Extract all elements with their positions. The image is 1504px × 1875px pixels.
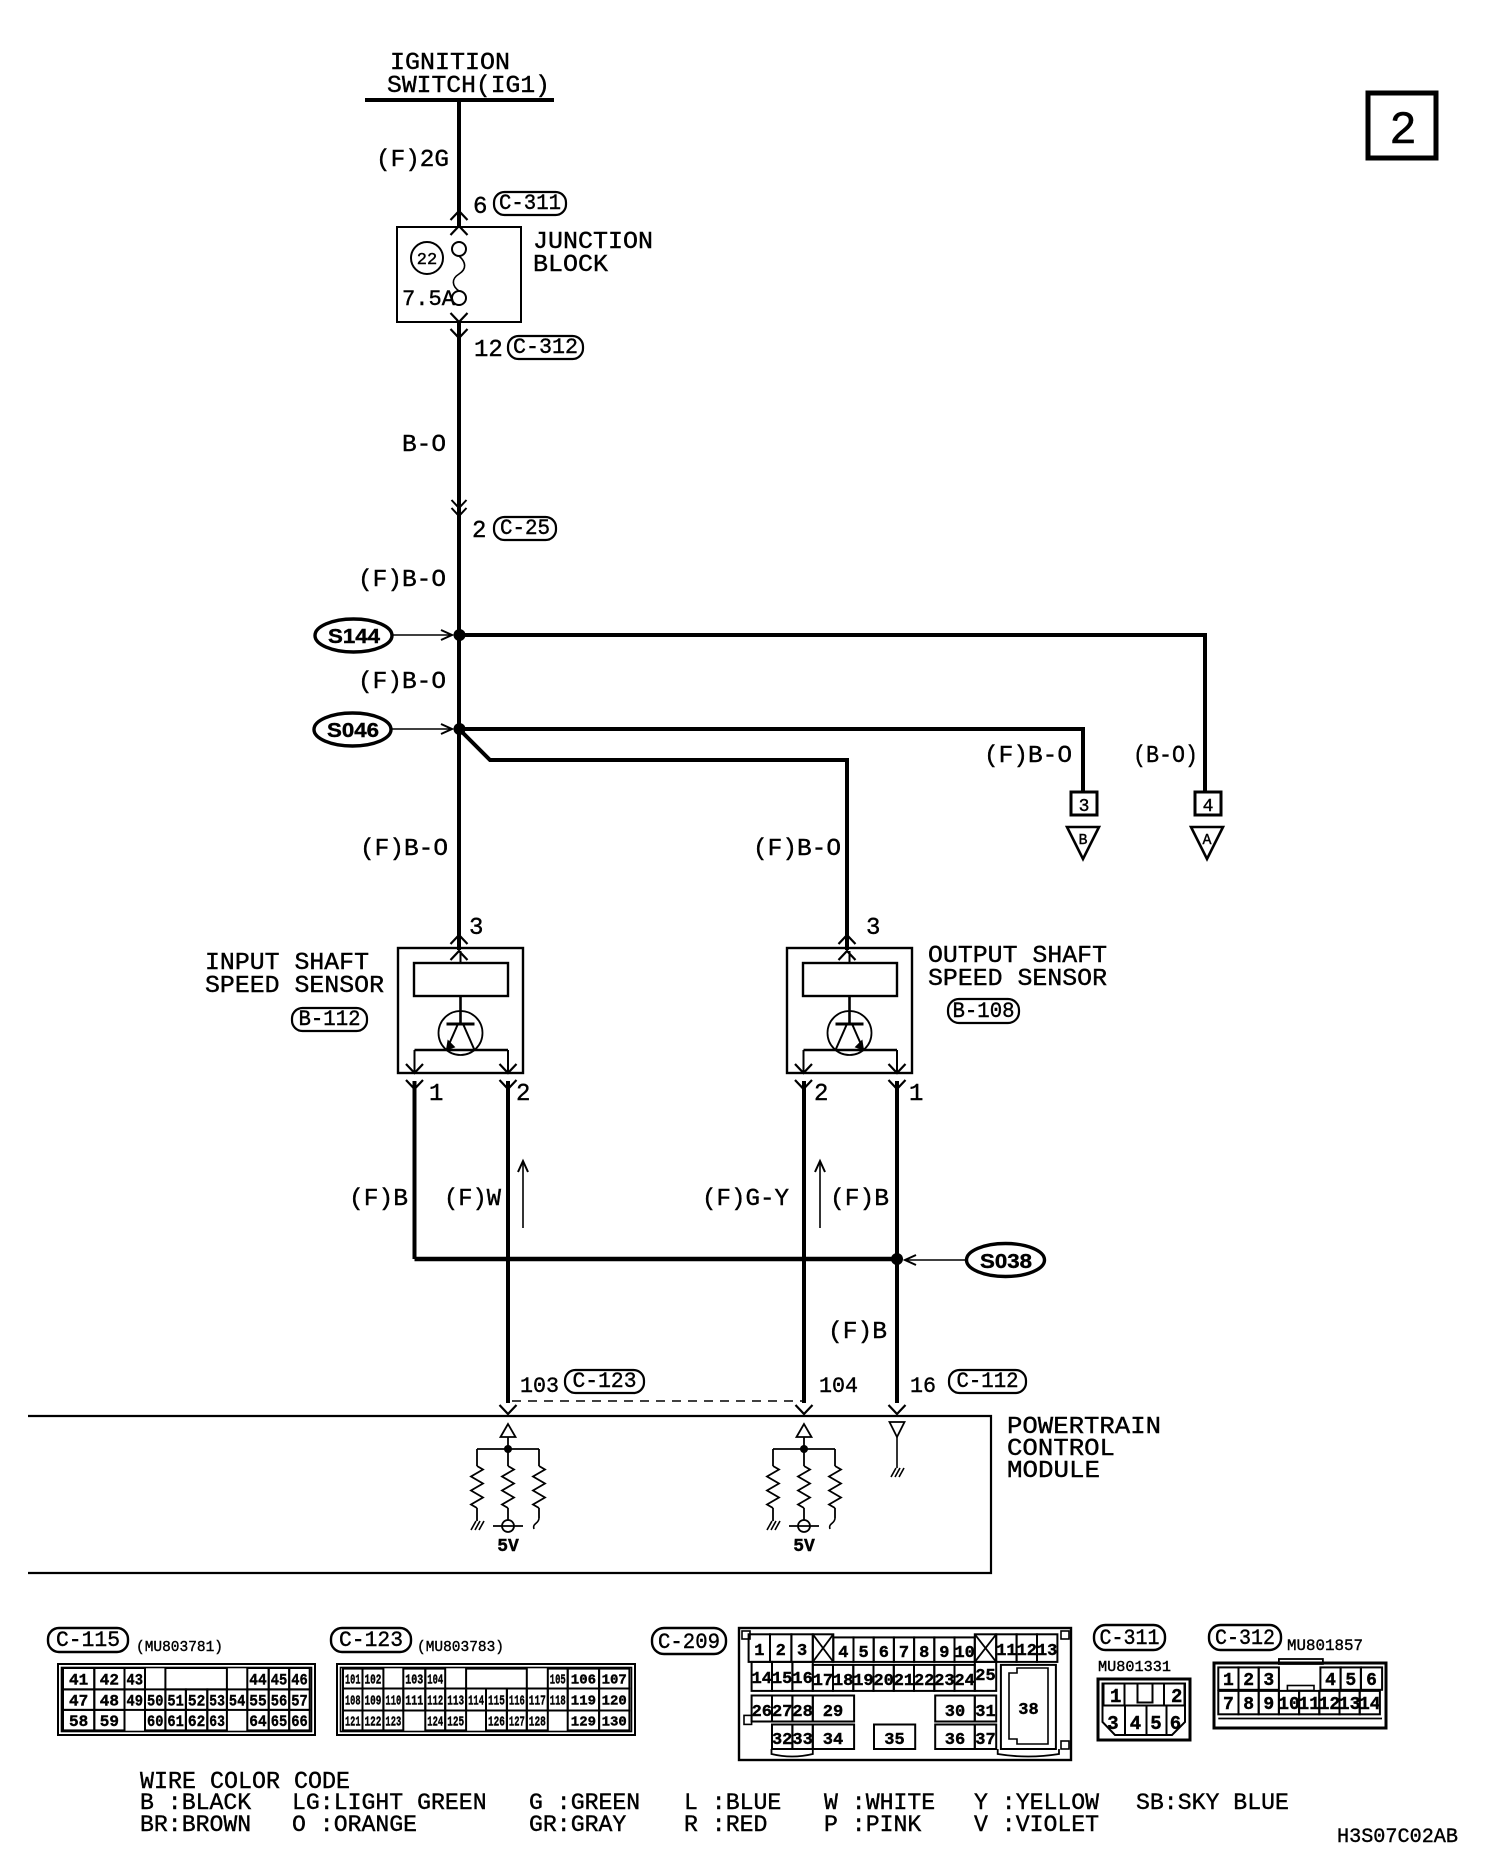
svg-text:(F)B-O: (F)B-O xyxy=(360,836,448,863)
connector C-311 pin 6 crossing xyxy=(451,191,567,221)
splice S046 oval xyxy=(314,713,391,746)
fuse number circle 22 xyxy=(411,242,443,274)
svg-text:R :RED: R :RED xyxy=(684,1812,767,1838)
svg-text:13: 13 xyxy=(1037,1642,1057,1661)
svg-text:20: 20 xyxy=(873,1672,893,1691)
svg-text:(F)B-O: (F)B-O xyxy=(358,669,446,696)
svg-text:13: 13 xyxy=(1339,1695,1361,1715)
twist arrow output xyxy=(815,1161,825,1228)
svg-text:23: 23 xyxy=(934,1672,954,1691)
svg-text:12: 12 xyxy=(1319,1695,1341,1715)
svg-text:46: 46 xyxy=(291,1671,308,1689)
junction block exit arrow xyxy=(451,313,468,322)
svg-text:GR:GRAY: GR:GRAY xyxy=(529,1812,626,1838)
svg-text:26: 26 xyxy=(752,1703,772,1722)
svg-text:(F)B-O: (F)B-O xyxy=(984,743,1072,770)
wire color code table xyxy=(140,1790,1289,1838)
svg-text:S144: S144 xyxy=(328,626,381,648)
svg-text:115: 115 xyxy=(488,1694,505,1710)
part number MU801331 xyxy=(1098,1659,1171,1676)
input sensor label xyxy=(205,950,384,1000)
svg-text:31: 31 xyxy=(975,1703,995,1722)
svg-text:29: 29 xyxy=(823,1703,843,1722)
page number box 2 xyxy=(1368,93,1436,158)
junction block entry arrow xyxy=(451,226,468,235)
svg-text:114: 114 xyxy=(468,1694,484,1710)
svg-text:S046: S046 xyxy=(327,720,379,742)
svg-text:5V: 5V xyxy=(497,1537,519,1557)
PCM input-sensor pull-up network xyxy=(471,1424,545,1557)
svg-text:28: 28 xyxy=(792,1703,812,1722)
label (F)B-O above S046 xyxy=(358,669,446,696)
svg-text:57: 57 xyxy=(291,1692,308,1710)
connector label C-123 xyxy=(331,1628,411,1653)
label (F)G-Y output pin2 xyxy=(702,1186,789,1213)
svg-text:61: 61 xyxy=(167,1713,184,1731)
svg-text:14: 14 xyxy=(752,1670,772,1689)
svg-text:2: 2 xyxy=(1243,1671,1254,1691)
svg-text:35: 35 xyxy=(884,1731,904,1750)
svg-text:6: 6 xyxy=(879,1644,889,1663)
svg-text:105: 105 xyxy=(550,1673,566,1689)
svg-text:SPEED SENSOR: SPEED SENSOR xyxy=(205,973,384,1000)
svg-text:110: 110 xyxy=(385,1694,401,1710)
ignition switch bus bar xyxy=(365,98,554,102)
svg-text:112: 112 xyxy=(427,1694,443,1710)
connector C-115 pin view xyxy=(58,1664,315,1735)
svg-text:126: 126 xyxy=(488,1714,505,1730)
svg-text:25: 25 xyxy=(975,1667,995,1686)
svg-text:116: 116 xyxy=(509,1694,525,1710)
svg-text:14: 14 xyxy=(1359,1695,1381,1715)
svg-text:18: 18 xyxy=(833,1672,853,1691)
input sensor pin 2 label xyxy=(516,1081,530,1108)
wire (F)B input pin1 down to S038 run xyxy=(413,1081,417,1259)
svg-text:B-112: B-112 xyxy=(299,1007,361,1032)
svg-text:51: 51 xyxy=(167,1692,184,1710)
label (F)B to pin16 xyxy=(828,1319,887,1346)
svg-text:60: 60 xyxy=(147,1713,163,1731)
svg-text:8: 8 xyxy=(1243,1695,1254,1715)
svg-text:2: 2 xyxy=(1389,105,1417,157)
svg-text:27: 27 xyxy=(772,1703,792,1722)
wire S144 to sheet connector 4 xyxy=(460,635,1206,791)
svg-text:H3S07C02AB: H3S07C02AB xyxy=(1337,1826,1458,1849)
svg-text:B: B xyxy=(1078,832,1087,849)
PCM pin 16 label xyxy=(910,1374,936,1399)
svg-text:104: 104 xyxy=(427,1673,443,1689)
label (F)B-O above input sensor xyxy=(360,836,448,863)
svg-text:30: 30 xyxy=(945,1703,965,1722)
svg-text:SWITCH(IG1): SWITCH(IG1) xyxy=(387,73,550,100)
label B-O xyxy=(402,432,446,459)
connector label C-123 (wire) xyxy=(565,1369,644,1394)
connector label B-108 xyxy=(948,999,1019,1024)
output sensor pin 2 label xyxy=(814,1081,828,1108)
output sensor label xyxy=(928,943,1107,993)
svg-text:101: 101 xyxy=(345,1673,361,1689)
sheet arrow A xyxy=(1191,827,1223,859)
svg-text:58: 58 xyxy=(69,1713,88,1731)
svg-text:33: 33 xyxy=(792,1731,812,1750)
PCM crossing arrow pin104 xyxy=(796,1405,813,1414)
svg-text:3: 3 xyxy=(1263,1671,1274,1691)
part number MU801857 xyxy=(1287,1637,1363,1655)
PCM crossing arrow pin16 xyxy=(889,1405,906,1414)
svg-text:36: 36 xyxy=(945,1731,965,1750)
svg-text:6: 6 xyxy=(473,194,487,221)
svg-text:4: 4 xyxy=(838,1644,848,1663)
PCM pin16 ground xyxy=(890,1422,905,1477)
svg-text:4: 4 xyxy=(1325,1671,1336,1691)
label (F)B-O above S144 xyxy=(358,567,446,594)
wire (F)B output pin1 to PCM pin16 xyxy=(895,1081,899,1403)
connector label C-112 (wire) xyxy=(949,1369,1026,1394)
svg-text:45: 45 xyxy=(271,1671,288,1689)
wire B-O junction block to S046 xyxy=(457,322,461,950)
svg-text:9: 9 xyxy=(1263,1695,1274,1715)
label (F)2G xyxy=(376,147,449,174)
svg-text:(F)B-O: (F)B-O xyxy=(753,836,841,863)
svg-text:22: 22 xyxy=(914,1672,934,1691)
input sensor pin 1 label xyxy=(429,1081,443,1108)
svg-text:BLOCK: BLOCK xyxy=(533,252,609,279)
svg-text:MODULE: MODULE xyxy=(1007,1458,1100,1485)
svg-text:66: 66 xyxy=(291,1713,308,1731)
svg-text:11: 11 xyxy=(1298,1695,1320,1715)
label (F)W input pin2 xyxy=(444,1186,502,1213)
svg-text:117: 117 xyxy=(529,1694,546,1710)
sheet connector box 3 xyxy=(1071,792,1097,817)
svg-text:104: 104 xyxy=(819,1374,858,1399)
part number MU803783 xyxy=(417,1639,504,1656)
svg-text:111: 111 xyxy=(405,1694,423,1710)
svg-text:(F)2G: (F)2G xyxy=(376,147,449,174)
svg-text:4: 4 xyxy=(1203,797,1214,817)
svg-text:53: 53 xyxy=(209,1692,225,1710)
svg-text:2: 2 xyxy=(814,1081,828,1108)
svg-text:C-25: C-25 xyxy=(500,516,550,541)
svg-text:50: 50 xyxy=(147,1692,163,1710)
connector label B-112 xyxy=(292,1007,367,1032)
svg-text:103: 103 xyxy=(520,1374,559,1399)
node S038 junction dot xyxy=(891,1253,903,1265)
splice S144 oval xyxy=(315,619,392,652)
svg-text:C-312: C-312 xyxy=(1215,1626,1275,1651)
wire S046 to sheet connector 3 xyxy=(460,729,1084,791)
svg-text:(F)B-O: (F)B-O xyxy=(358,567,446,594)
node S046 junction dot xyxy=(454,723,466,735)
svg-text:22: 22 xyxy=(417,251,437,270)
svg-text:119: 119 xyxy=(571,1694,596,1710)
connector C-311 pin view xyxy=(1098,1679,1190,1740)
svg-text:42: 42 xyxy=(100,1671,119,1689)
fuse 7.5A symbol xyxy=(452,242,466,305)
wire (F)W input pin2 to PCM pin103 xyxy=(506,1081,510,1403)
label (F)B output pin1 xyxy=(830,1186,889,1213)
svg-text:48: 48 xyxy=(100,1692,119,1710)
drawing number H3S07C02AB xyxy=(1337,1826,1458,1849)
connector C-123 pin view xyxy=(337,1664,635,1735)
svg-text:7: 7 xyxy=(1223,1695,1234,1715)
svg-text:3: 3 xyxy=(1107,1713,1118,1735)
connector label C-209 xyxy=(652,1628,726,1655)
svg-text:108: 108 xyxy=(345,1694,361,1710)
svg-text:6: 6 xyxy=(1366,1671,1377,1691)
junction block box xyxy=(397,227,521,322)
svg-text:44: 44 xyxy=(249,1671,267,1689)
svg-text:(F)B: (F)B xyxy=(830,1186,889,1213)
connector C-312 pin view xyxy=(1214,1659,1386,1728)
svg-text:37: 37 xyxy=(975,1731,995,1750)
svg-text:3: 3 xyxy=(866,915,880,942)
svg-text:38: 38 xyxy=(1018,1701,1038,1720)
connector C-312 pin 12 crossing xyxy=(451,329,584,364)
ignition switch (IG1) label xyxy=(387,50,550,100)
svg-text:C-123: C-123 xyxy=(573,1369,637,1394)
svg-text:118: 118 xyxy=(550,1694,566,1710)
dashed harness boundary xyxy=(512,1400,805,1402)
twist arrow input xyxy=(518,1161,528,1228)
PCM crossing arrow pin103 xyxy=(500,1405,517,1414)
svg-text:128: 128 xyxy=(529,1714,546,1730)
svg-text:34: 34 xyxy=(823,1731,843,1750)
svg-text:1: 1 xyxy=(429,1081,443,1108)
connector C-25 pin 2 crossing xyxy=(452,500,557,545)
svg-text:17: 17 xyxy=(813,1672,833,1691)
svg-text:6: 6 xyxy=(1170,1713,1181,1735)
connector label C-312 (view) xyxy=(1209,1625,1281,1651)
junction block label xyxy=(533,229,653,279)
svg-text:C-209: C-209 xyxy=(658,1630,720,1655)
svg-text:122: 122 xyxy=(365,1714,382,1730)
svg-text:49: 49 xyxy=(127,1692,144,1710)
svg-text:109: 109 xyxy=(365,1694,382,1710)
svg-text:12: 12 xyxy=(1017,1642,1037,1661)
output sensor pin 3 label xyxy=(866,915,880,942)
svg-text:65: 65 xyxy=(271,1713,288,1731)
svg-text:5: 5 xyxy=(1150,1713,1161,1735)
svg-text:19: 19 xyxy=(853,1672,873,1691)
powertrain control module box xyxy=(28,1416,991,1573)
svg-text:47: 47 xyxy=(69,1692,88,1710)
svg-text:2: 2 xyxy=(472,518,486,545)
svg-text:SPEED SENSOR: SPEED SENSOR xyxy=(928,966,1107,993)
svg-text:103: 103 xyxy=(405,1673,423,1689)
node S144 junction dot xyxy=(454,629,466,641)
svg-text:64: 64 xyxy=(249,1713,267,1731)
label (F)B-O at connector 3 xyxy=(984,743,1072,770)
output shaft speed sensor B-108 (component) xyxy=(787,948,912,1089)
svg-text:63: 63 xyxy=(209,1713,225,1731)
svg-text:113: 113 xyxy=(447,1694,464,1710)
sheet connector box 4 xyxy=(1195,792,1221,817)
svg-text:121: 121 xyxy=(345,1714,361,1730)
svg-text:3: 3 xyxy=(469,915,483,942)
svg-text:12: 12 xyxy=(474,337,503,364)
svg-text:43: 43 xyxy=(127,1671,144,1689)
svg-text:123: 123 xyxy=(385,1714,401,1730)
sheet arrow B xyxy=(1067,827,1099,859)
svg-text:C-123: C-123 xyxy=(339,1628,403,1653)
svg-text:52: 52 xyxy=(188,1692,205,1710)
svg-text:16: 16 xyxy=(910,1374,936,1399)
part number MU803781 xyxy=(136,1639,223,1656)
svg-text:56: 56 xyxy=(271,1692,288,1710)
svg-text:2: 2 xyxy=(516,1081,530,1108)
svg-text:(F)W: (F)W xyxy=(444,1186,502,1213)
svg-text:(MU803781): (MU803781) xyxy=(136,1639,223,1656)
output sensor pin 1 label xyxy=(909,1081,923,1108)
svg-text:124: 124 xyxy=(427,1714,443,1730)
svg-text:5: 5 xyxy=(858,1644,868,1663)
svg-text:BR:BROWN: BR:BROWN xyxy=(140,1812,251,1838)
svg-text:11: 11 xyxy=(996,1642,1016,1661)
svg-text:120: 120 xyxy=(602,1694,627,1710)
PCM output-sensor pull-up network xyxy=(767,1424,841,1557)
svg-text:10: 10 xyxy=(954,1644,974,1663)
svg-text:C-112: C-112 xyxy=(957,1369,1019,1394)
label (B-O) at connector 4 xyxy=(1133,743,1198,770)
PCM pin 104 label xyxy=(819,1374,858,1399)
svg-text:MU801331: MU801331 xyxy=(1098,1659,1171,1676)
svg-text:P :PINK: P :PINK xyxy=(824,1812,921,1838)
svg-text:V :VIOLET: V :VIOLET xyxy=(974,1812,1099,1838)
svg-text:(MU803783): (MU803783) xyxy=(417,1639,504,1656)
svg-text:3: 3 xyxy=(797,1642,807,1661)
svg-text:5V: 5V xyxy=(793,1537,815,1557)
label 7.5A xyxy=(402,287,456,312)
svg-text:O :ORANGE: O :ORANGE xyxy=(292,1812,417,1838)
arrow S046 to junction xyxy=(392,724,452,734)
svg-text:B-O: B-O xyxy=(402,432,446,459)
wire (F)2G ignition to junction block xyxy=(457,100,461,227)
svg-text:C-312: C-312 xyxy=(513,335,578,360)
output sensor entry arrows xyxy=(839,935,856,960)
label (F)B input pin1 xyxy=(349,1186,408,1213)
svg-text:62: 62 xyxy=(188,1713,205,1731)
svg-text:106: 106 xyxy=(571,1673,596,1689)
svg-text:1: 1 xyxy=(909,1081,923,1108)
svg-text:C-311: C-311 xyxy=(499,191,561,216)
svg-text:8: 8 xyxy=(919,1644,929,1663)
svg-text:107: 107 xyxy=(602,1673,627,1689)
svg-text:SB:SKY BLUE: SB:SKY BLUE xyxy=(1136,1790,1289,1816)
svg-text:7.5A: 7.5A xyxy=(402,287,456,312)
svg-text:(F)B: (F)B xyxy=(349,1186,408,1213)
svg-text:59: 59 xyxy=(100,1713,119,1731)
input shaft speed sensor B-112 (component) xyxy=(398,948,523,1089)
connector label C-115 xyxy=(48,1628,128,1653)
svg-text:(F)B: (F)B xyxy=(828,1319,887,1346)
svg-text:7: 7 xyxy=(899,1644,909,1663)
connector label C-311 (view) xyxy=(1094,1625,1165,1651)
svg-text:10: 10 xyxy=(1278,1695,1300,1715)
label (F)B-O above output sensor xyxy=(753,836,841,863)
svg-text:21: 21 xyxy=(894,1672,914,1691)
wire color code heading xyxy=(140,1769,350,1796)
svg-text:C-311: C-311 xyxy=(1100,1626,1160,1651)
svg-text:15: 15 xyxy=(772,1670,792,1689)
svg-text:3: 3 xyxy=(1079,797,1090,817)
svg-text:4: 4 xyxy=(1130,1713,1141,1735)
powertrain control module label xyxy=(1007,1414,1161,1485)
svg-text:127: 127 xyxy=(509,1714,525,1730)
wire S038 horizontal run xyxy=(415,1257,898,1262)
svg-text:C-115: C-115 xyxy=(56,1628,120,1653)
svg-text:16: 16 xyxy=(792,1670,812,1689)
input sensor pin 3 label xyxy=(469,915,483,942)
svg-text:54: 54 xyxy=(229,1692,246,1710)
svg-text:1: 1 xyxy=(754,1642,764,1661)
svg-text:5: 5 xyxy=(1345,1671,1356,1691)
wire branch S046 to output shaft speed sensor xyxy=(461,731,847,950)
svg-text:125: 125 xyxy=(447,1714,464,1730)
svg-text:41: 41 xyxy=(69,1671,88,1689)
connector C-209 pin view xyxy=(739,1628,1071,1760)
svg-text:(B-O): (B-O) xyxy=(1133,743,1198,770)
arrow S144 to junction xyxy=(393,630,452,640)
svg-text:9: 9 xyxy=(939,1644,949,1663)
svg-text:24: 24 xyxy=(954,1672,974,1691)
splice S038 oval xyxy=(967,1244,1045,1277)
PCM pin 103 label xyxy=(520,1374,559,1399)
svg-text:S038: S038 xyxy=(980,1251,1032,1273)
svg-text:2: 2 xyxy=(776,1642,786,1661)
svg-text:B-108: B-108 xyxy=(953,999,1015,1024)
svg-text:(F)G-Y: (F)G-Y xyxy=(702,1186,789,1213)
svg-text:32: 32 xyxy=(772,1731,792,1750)
wire (F)G-Y output pin2 to PCM pin104 xyxy=(802,1081,806,1403)
svg-text:A: A xyxy=(1202,832,1211,849)
svg-text:102: 102 xyxy=(365,1673,382,1689)
svg-text:130: 130 xyxy=(602,1714,627,1730)
input sensor entry arrows xyxy=(451,935,468,960)
arrow S038 to junction xyxy=(905,1255,966,1265)
svg-text:129: 129 xyxy=(571,1714,596,1730)
svg-text:MU801857: MU801857 xyxy=(1287,1637,1363,1655)
svg-text:55: 55 xyxy=(249,1692,266,1710)
svg-text:1: 1 xyxy=(1223,1671,1234,1691)
